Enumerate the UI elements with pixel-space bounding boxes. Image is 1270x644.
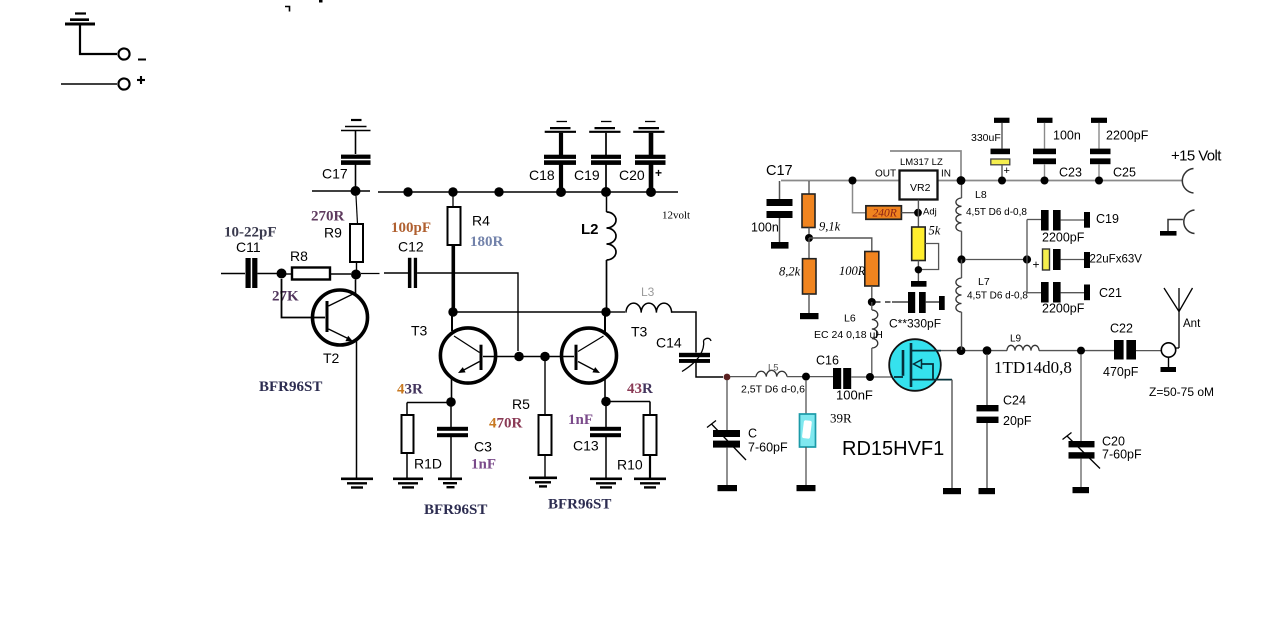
- inductor L3: [610, 303, 672, 313]
- regulator VR2 LM317: [900, 171, 938, 200]
- ground R5: [529, 478, 557, 487]
- capacitor C18 with ground: [544, 122, 576, 188]
- wire input minus: [80, 25, 117, 54]
- node L6/gate: [866, 373, 874, 381]
- svg-text:C19: C19: [574, 167, 600, 183]
- svg-text:R4: R4: [472, 213, 490, 229]
- svg-text:C20: C20: [619, 167, 645, 183]
- svg-text:T3: T3: [631, 324, 648, 340]
- svg-text:+: +: [1033, 258, 1040, 272]
- wire emitter node to R1D: [407, 402, 451, 404]
- wire into C11: [221, 273, 245, 275]
- svg-text:C13: C13: [573, 438, 599, 454]
- node drain C20: [1077, 347, 1085, 355]
- inductor L8: [956, 198, 962, 260]
- node OUT: [849, 177, 857, 185]
- svg-text:2200pF: 2200pF: [1042, 231, 1085, 245]
- wire VR2 bottom to 5k: [917, 200, 919, 227]
- svg-text:BFR96ST: BFR96ST: [259, 379, 322, 395]
- svg-text:39R: 39R: [830, 411, 852, 426]
- ground C3: [438, 479, 462, 487]
- resistor 9,1k: [802, 181, 815, 238]
- svg-text:LM317 LZ: LM317 LZ: [900, 157, 943, 168]
- capacitor C20 top with ground: [633, 122, 665, 188]
- ground R1D: [393, 479, 423, 488]
- node rail 330uF: [998, 177, 1006, 185]
- wire LM317 bypass top: [890, 151, 961, 180]
- resistor R1D: [402, 403, 414, 478]
- svg-text:IN: IN: [941, 169, 951, 180]
- ground bar 8,2k: [800, 313, 819, 319]
- svg-text:7-60pF: 7-60pF: [748, 441, 788, 455]
- ground R10: [634, 479, 666, 488]
- svg-text:100n: 100n: [1053, 129, 1081, 143]
- node rail x453: [448, 187, 457, 196]
- svg-text:C17: C17: [322, 166, 348, 182]
- svg-text:R5: R5: [512, 396, 530, 412]
- connector +15V: [1182, 169, 1193, 194]
- svg-text:100R: 100R: [839, 264, 866, 278]
- resistor R5: [539, 361, 552, 477]
- capacitor C13: [590, 406, 621, 478]
- node R8/R9/T2 collector: [351, 270, 361, 280]
- capacitor C11: [246, 258, 278, 288]
- wire dashed to C**: [875, 301, 892, 303]
- wire IN down to L8: [961, 181, 963, 198]
- node rail C23: [1041, 177, 1049, 185]
- wire drain line: [941, 350, 1114, 352]
- ground input (inverted stack): [65, 14, 95, 25]
- node rail x499: [494, 187, 503, 196]
- svg-text:BFR96ST: BFR96ST: [424, 502, 487, 518]
- node cap bank: [1023, 255, 1031, 263]
- svg-text:C20: C20: [1102, 435, 1125, 449]
- node collector bus left: [448, 307, 457, 316]
- svg-text:C12: C12: [398, 239, 424, 255]
- svg-text:20pF: 20pF: [1003, 414, 1032, 428]
- wire 27K node to T2 base: [282, 279, 326, 318]
- capacitor C14 variable: [679, 338, 711, 371]
- svg-text:OUT: OUT: [875, 169, 896, 180]
- inductor L6: [872, 302, 878, 377]
- wire input plus: [61, 83, 117, 85]
- wire cap bank vertical: [1026, 220, 1028, 294]
- svg-text:100nF: 100nF: [836, 388, 873, 403]
- terminal plus: [118, 76, 145, 90]
- svg-text:470R: 470R: [489, 416, 523, 432]
- svg-text:9,1k: 9,1k: [819, 220, 841, 234]
- svg-text:Ant: Ant: [1183, 318, 1201, 330]
- node base bus right: [540, 352, 550, 362]
- capacitor 330uF: [991, 118, 1011, 180]
- svg-text:C22: C22: [1110, 322, 1133, 336]
- resistor R8: [286, 268, 351, 280]
- svg-text:1nF: 1nF: [568, 412, 593, 428]
- svg-text:R8: R8: [290, 248, 308, 264]
- wire left T3 emitter: [451, 379, 453, 401]
- wire stub to C12: [361, 272, 408, 275]
- ground T2: [341, 479, 373, 488]
- svg-text:R10: R10: [617, 457, 643, 473]
- svg-text:T3: T3: [411, 323, 428, 339]
- transistor T3 left: [440, 328, 495, 383]
- svg-text:L2: L2: [581, 221, 599, 238]
- ground bar C24: [979, 488, 996, 494]
- svg-text:Adj: Adj: [923, 207, 937, 218]
- transistor T3 right: [562, 328, 617, 383]
- resistor R9: [350, 196, 363, 270]
- capacitor C19: [1027, 210, 1090, 231]
- svg-text:C3: C3: [474, 439, 492, 455]
- ground bar 5k: [911, 281, 927, 287]
- connector ground jack: [1160, 210, 1195, 236]
- resistor 100R: [865, 252, 879, 303]
- node rail x408: [403, 187, 412, 196]
- svg-text:100n: 100n: [751, 221, 779, 235]
- wire source to ground: [951, 380, 953, 488]
- svg-text:L9: L9: [1010, 334, 1022, 345]
- ground bar C20 trimmer: [1073, 487, 1090, 493]
- svg-text:270R: 270R: [311, 209, 345, 225]
- ground bar source: [943, 488, 961, 494]
- ground bar C17 regulator: [771, 242, 789, 249]
- svg-text:L7: L7: [978, 276, 990, 288]
- svg-text:27K: 27K: [272, 289, 299, 305]
- node drain L7: [957, 346, 966, 355]
- inductor L5: [756, 370, 787, 376]
- svg-text:C25: C25: [1113, 166, 1136, 180]
- svg-text:+: +: [655, 166, 662, 180]
- wire emitter node to R10: [606, 401, 650, 403]
- wire C14 down to node: [696, 362, 723, 377]
- wire right T3 emitter: [604, 378, 606, 401]
- svg-text:8,2k: 8,2k: [779, 265, 801, 279]
- wire 240R to Adj: [901, 212, 918, 214]
- svg-text:C19: C19: [1096, 212, 1119, 226]
- wire 5k to ground: [917, 261, 919, 282]
- wire right T3 collector: [604, 312, 606, 333]
- svg-text:C**330pF: C**330pF: [889, 317, 941, 331]
- svg-text:T2: T2: [323, 350, 340, 366]
- svg-text:R9: R9: [324, 225, 342, 241]
- wire 12V rail: [312, 191, 678, 192]
- node C11/R8/base: [277, 269, 287, 279]
- inductor L9: [1007, 345, 1039, 350]
- svg-text:Z=50-75 oM: Z=50-75 oM: [1149, 385, 1214, 399]
- svg-text:C23: C23: [1059, 166, 1082, 180]
- svg-text:5k: 5k: [929, 224, 941, 238]
- svg-text:180R: 180R: [470, 234, 504, 250]
- wire base bus: [483, 356, 574, 358]
- capacitor C21: [1027, 282, 1090, 303]
- stray mark top: [285, 7, 290, 12]
- svg-text:7-60pF: 7-60pF: [1102, 448, 1142, 462]
- svg-text:1TD14d0,8: 1TD14d0,8: [994, 358, 1072, 377]
- resistor 39R cyan: [800, 380, 816, 485]
- wire R4 thick drop: [451, 245, 455, 312]
- node 5k wiper: [915, 266, 922, 273]
- wire OUT to 240R: [853, 181, 866, 213]
- svg-text:240R: 240R: [873, 208, 897, 220]
- antenna jack circle: [1161, 343, 1177, 372]
- inductor L7: [956, 260, 962, 351]
- capacitor C** 330pF: [892, 292, 945, 313]
- resistor R4: [448, 197, 461, 246]
- node divider: [805, 234, 813, 242]
- svg-text:C24: C24: [1003, 394, 1026, 408]
- svg-text:R1D: R1D: [414, 456, 442, 472]
- svg-text:L8: L8: [975, 189, 987, 201]
- svg-text:2200pF: 2200pF: [1042, 302, 1085, 316]
- wire L3 to C14: [671, 312, 696, 353]
- wire +15 rail gray: [781, 180, 1182, 182]
- capacitor C12: [408, 258, 417, 288]
- node rail x561: [556, 187, 566, 197]
- wire T2 emitter: [356, 341, 358, 478]
- ground C13: [590, 479, 622, 488]
- wire left T3 collector: [451, 312, 453, 331]
- svg-text:2,5T D6 d-0,6: 2,5T D6 d-0,6: [741, 384, 805, 396]
- svg-text:L5: L5: [768, 363, 779, 374]
- svg-text:C14: C14: [656, 335, 682, 351]
- svg-text:RD15HVF1: RD15HVF1: [842, 438, 944, 460]
- wire L5 row left: [730, 376, 756, 378]
- svg-text:100pF: 100pF: [391, 220, 431, 236]
- node base bus left: [514, 352, 524, 362]
- node C14/L5 junction: [724, 374, 731, 381]
- node drain C24: [983, 346, 992, 355]
- svg-text:12volt: 12volt: [662, 210, 690, 222]
- wire L8 node to cap bank: [965, 259, 1027, 261]
- capacitor C24: [977, 354, 999, 488]
- capacitor C17 regulator 100n: [767, 181, 793, 242]
- svg-text:22uFx63V: 22uFx63V: [1090, 254, 1143, 266]
- svg-text:43R: 43R: [397, 382, 423, 398]
- capacitor C3: [437, 406, 468, 478]
- svg-text:C21: C21: [1099, 286, 1122, 300]
- transistor RD15HVF1 mosfet: [889, 339, 952, 391]
- svg-text:4,5T D6 d-0,8: 4,5T D6 d-0,8: [967, 291, 1028, 302]
- capacitor C22: [1114, 340, 1161, 360]
- node L8/L7: [957, 255, 965, 263]
- capacitor C16: [810, 368, 892, 389]
- wire collector bus: [453, 311, 606, 313]
- capacitor C trimmer: [707, 380, 746, 485]
- capacitor C25: [1090, 118, 1111, 180]
- inductor L2: [607, 197, 617, 308]
- node rail x606: [601, 187, 611, 197]
- resistor 240R: [866, 206, 902, 220]
- capacitor C20 trimmer: [1063, 354, 1101, 487]
- svg-text:+: +: [1004, 165, 1010, 177]
- wire C12 to T3 bases: [417, 273, 518, 351]
- antenna Ant: [1164, 288, 1193, 348]
- capacitor C23: [1033, 118, 1056, 180]
- capacitor C19 top with ground: [589, 122, 621, 188]
- ground above C17: [341, 120, 371, 154]
- svg-text:L6: L6: [844, 313, 856, 325]
- stray dot top: [319, 0, 323, 3]
- node 100R bottom: [868, 298, 876, 306]
- potentiometer 5k: [912, 227, 939, 270]
- transistor T2: [313, 280, 368, 346]
- wire divider to 100R: [809, 238, 872, 252]
- node rail C25: [1095, 177, 1103, 185]
- svg-text:330uF: 330uF: [971, 132, 1001, 144]
- svg-text:BFR96ST: BFR96ST: [548, 497, 611, 513]
- svg-text:C: C: [748, 427, 757, 441]
- node right emitter: [601, 397, 611, 407]
- svg-text:C18: C18: [529, 167, 555, 183]
- svg-text:2200pF: 2200pF: [1106, 129, 1149, 143]
- svg-text:1nF: 1nF: [471, 457, 496, 473]
- svg-text:C11: C11: [236, 239, 261, 255]
- ground bar trimmer C: [718, 485, 738, 491]
- svg-text:470pF: 470pF: [1103, 365, 1139, 379]
- terminal minus: [118, 48, 146, 59]
- node IN: [957, 176, 966, 185]
- svg-text:C16: C16: [816, 354, 839, 368]
- node collector bus right: [601, 307, 610, 316]
- resistor 8,2k: [803, 238, 817, 313]
- node rail at C17: [351, 186, 361, 196]
- svg-text:43R: 43R: [627, 381, 653, 397]
- svg-text:C17: C17: [766, 163, 793, 179]
- capacitor 22uFx63V: [1033, 249, 1091, 272]
- capacitor C17: [341, 155, 371, 187]
- svg-text:L3: L3: [641, 285, 655, 299]
- svg-text:4,5T D6 d-0,8: 4,5T D6 d-0,8: [966, 207, 1027, 218]
- svg-text:EC 24 0,18 uH: EC 24 0,18 uH: [814, 329, 883, 341]
- resistor R10: [644, 402, 657, 478]
- svg-text:VR2: VR2: [910, 182, 931, 194]
- node Adj: [914, 209, 922, 217]
- svg-text:+15 Volt: +15 Volt: [1171, 148, 1222, 165]
- ground bar 39R: [797, 485, 816, 491]
- node L5/39R/C16: [802, 373, 810, 381]
- wire L5 to C16 node: [787, 376, 806, 378]
- node rail x651: [646, 187, 656, 197]
- node left emitter: [446, 397, 456, 407]
